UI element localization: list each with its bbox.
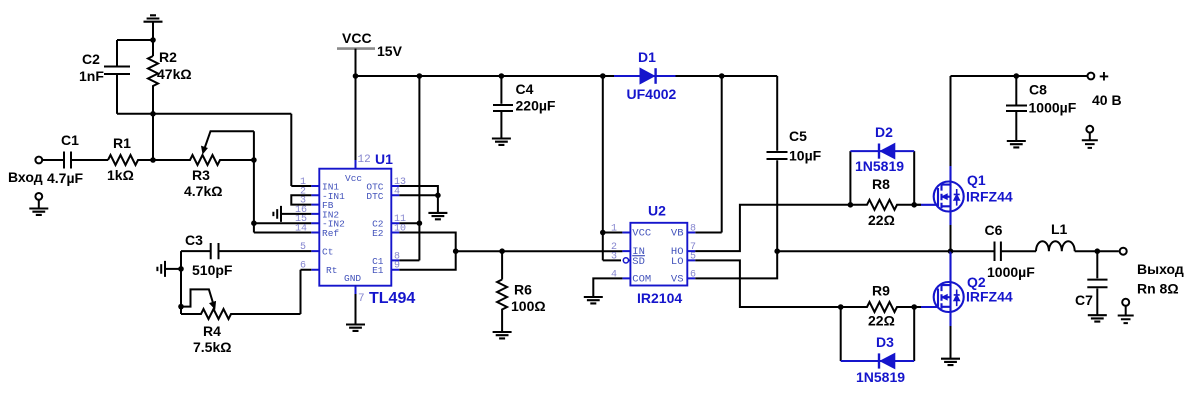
capacitor C1 <box>42 159 64 161</box>
node: PWM output <box>453 248 459 254</box>
wire: 40V rail right <box>951 75 1088 77</box>
svg-text:C7: C7 <box>1075 292 1093 308</box>
capacitor C5 <box>776 76 778 151</box>
svg-text:D1: D1 <box>638 49 656 65</box>
svg-text:7: 7 <box>358 293 365 305</box>
svg-text:5: 5 <box>690 251 696 262</box>
wire: to U2 pin 1 <box>603 232 623 234</box>
capacitor C6 <box>951 250 994 252</box>
node: U2 VCC tap <box>600 230 606 236</box>
wire: HO to R8 <box>695 205 850 251</box>
svg-text:100Ω: 100Ω <box>511 298 546 314</box>
svg-text:1N5819: 1N5819 <box>856 369 905 385</box>
supply ground terminal <box>1086 126 1093 133</box>
op-amp U1 TL494 body <box>319 169 391 286</box>
svg-text:+: + <box>1099 67 1109 86</box>
svg-text:7.5kΩ: 7.5kΩ <box>193 339 231 355</box>
svg-text:40 В: 40 В <box>1092 92 1122 108</box>
node: R8 left <box>848 202 854 208</box>
svg-text:1: 1 <box>611 224 617 235</box>
svg-text:Rt: Rt <box>326 265 337 276</box>
node: R9 left <box>838 304 844 310</box>
ground (output terminal) <box>1118 316 1134 324</box>
ground (top-left, inverted) <box>152 22 154 40</box>
ground (C4) <box>492 139 511 145</box>
wire: main VCC rail <box>356 75 778 77</box>
U2 pin stubs left <box>622 233 630 279</box>
svg-text:R1: R1 <box>113 135 131 151</box>
svg-text:Rn 8Ω: Rn 8Ω <box>1137 281 1179 297</box>
U1 pin 12 stub <box>355 160 357 169</box>
svg-text:DTC: DTC <box>366 191 383 202</box>
svg-text:Vcc: Vcc <box>345 173 362 184</box>
svg-text:C6: C6 <box>985 222 1003 238</box>
wire: VCC down to rail and U1 pin 12 <box>355 49 357 169</box>
potentiometer R4 <box>181 270 311 319</box>
svg-text:R4: R4 <box>203 323 221 339</box>
transistor Q1 IRFZ44 <box>914 76 964 251</box>
svg-text:LO: LO <box>671 256 684 268</box>
ground (U1 pin 16 IN2) <box>281 213 311 215</box>
node: R1/R3/feedback junction <box>150 157 156 163</box>
potentiometer R3 <box>153 155 254 165</box>
ground (input) <box>29 209 48 215</box>
svg-text:C1: C1 <box>61 132 79 148</box>
svg-text:15V: 15V <box>377 43 403 59</box>
resistor R9 <box>841 302 921 312</box>
ground (C3 left, sideways) <box>165 268 181 270</box>
svg-text:C3: C3 <box>185 232 203 248</box>
wire: VS to switch node <box>695 251 777 278</box>
svg-text:R3: R3 <box>192 167 210 183</box>
U1 pin 7 GND stub <box>355 286 357 325</box>
svg-text:VCC: VCC <box>342 30 372 46</box>
svg-text:6: 6 <box>690 269 696 280</box>
wire to pin 15 <box>254 222 311 224</box>
capacitor C3 <box>181 250 211 252</box>
output terminal <box>1120 248 1127 255</box>
wire: jumper pins 2-3 (FB to -IN1) <box>291 195 311 204</box>
wire: rail down to C2/C1 pins of U1 <box>399 76 419 260</box>
svg-text:D2: D2 <box>875 124 893 140</box>
svg-text:4: 4 <box>394 186 400 197</box>
svg-text:220µF: 220µF <box>516 98 556 114</box>
inductor L1 <box>1036 241 1075 251</box>
svg-text:8: 8 <box>690 224 696 235</box>
wire: VB vertical <box>695 76 721 233</box>
capacitor C4 <box>500 76 502 104</box>
transistor Q2 IRFZ44 <box>914 251 964 359</box>
resistor R2 <box>148 40 158 114</box>
output ground terminal <box>1122 299 1129 306</box>
node: OTC/DTC junction <box>435 193 441 199</box>
ground (C8) <box>1007 141 1026 147</box>
svg-text:E1: E1 <box>372 265 384 276</box>
U1 right pin stubs <box>391 186 399 270</box>
svg-text:UF4002: UF4002 <box>627 86 677 102</box>
wire: L1 to output <box>1075 250 1119 252</box>
resistor R8 <box>850 200 921 210</box>
svg-text:TL494: TL494 <box>369 290 415 307</box>
svg-text:U2: U2 <box>648 203 666 219</box>
svg-text:Ct: Ct <box>322 247 333 258</box>
svg-text:R6: R6 <box>514 282 532 298</box>
wire: E2/E1 output junction <box>399 233 455 270</box>
svg-text:C8: C8 <box>1029 82 1047 98</box>
svg-text:E2: E2 <box>372 228 384 239</box>
resistor R1 <box>108 155 153 165</box>
svg-text:9: 9 <box>394 261 400 272</box>
diode D3 1N5819 <box>841 307 915 361</box>
svg-text:C5: C5 <box>789 128 807 144</box>
svg-text:VS: VS <box>671 273 684 285</box>
wire: down to U2 VCC and SD <box>603 76 621 260</box>
node: C8 rail tap <box>1014 73 1020 79</box>
node: switch node / C6 <box>948 248 954 254</box>
wire: COM to ground <box>593 278 622 297</box>
capacitor C2 <box>116 40 118 66</box>
svg-text:IRFZ44: IRFZ44 <box>966 289 1013 305</box>
wire: LO to R9 <box>695 260 840 307</box>
node: VS / C5 junction <box>774 248 780 254</box>
node: rail/pin11 branch <box>417 73 423 79</box>
capacitor C8 <box>1015 76 1017 105</box>
input ground terminal <box>35 193 42 200</box>
svg-text:Ref: Ref <box>322 228 339 239</box>
svg-text:U1: U1 <box>375 151 393 167</box>
node: rail / U2 VCC branch <box>600 73 606 79</box>
svg-text:1nF: 1nF <box>79 68 104 84</box>
wire: switch node horizontal <box>777 250 950 252</box>
node: R9 right / gate <box>911 304 917 310</box>
node: rail / VB branch <box>719 73 725 79</box>
node: -IN2 tap <box>251 220 257 226</box>
wire: C3 left vertical <box>180 251 182 314</box>
ground (OTC/DTC) <box>428 213 447 219</box>
svg-text:Выход: Выход <box>1137 261 1184 277</box>
svg-text:12: 12 <box>358 154 371 166</box>
node: R3 right terminal <box>251 157 257 163</box>
op-amp U2 IR2104 body <box>630 223 687 286</box>
wire: PWM output to U2 IN <box>456 250 623 252</box>
input terminal Вход <box>35 157 42 164</box>
svg-text:C2: C2 <box>82 51 100 67</box>
svg-text:L1: L1 <box>1051 221 1068 237</box>
node: C4 rail tap <box>499 73 505 79</box>
wire to pin 14 <box>254 232 311 234</box>
svg-text:47kΩ: 47kΩ <box>157 66 192 82</box>
ground (R6) <box>493 332 512 338</box>
svg-text:D3: D3 <box>876 334 894 350</box>
svg-text:1kΩ: 1kΩ <box>107 167 134 183</box>
U2 pin stubs right <box>687 233 695 279</box>
wire: OTC/DTC to ground <box>399 186 438 213</box>
svg-text:4.7µF: 4.7µF <box>47 170 84 186</box>
svg-text:Вход: Вход <box>8 169 43 185</box>
svg-text:1N5819: 1N5819 <box>855 158 904 174</box>
R3 wiper <box>204 131 254 149</box>
diode D2 1N5819 <box>850 151 914 205</box>
svg-text:4.7kΩ: 4.7kΩ <box>184 183 222 199</box>
node: R8 right / gate <box>911 202 917 208</box>
U2 pin 3 SD bubble <box>623 258 628 263</box>
supply + terminal <box>1088 73 1095 80</box>
svg-text:C4: C4 <box>516 81 534 97</box>
svg-text:VB: VB <box>671 228 684 240</box>
svg-text:SD: SD <box>632 256 645 268</box>
svg-text:R8: R8 <box>872 176 890 192</box>
svg-text:22Ω: 22Ω <box>868 212 895 228</box>
ground (U1 pin 7) <box>346 325 365 331</box>
wire: R3 terminal down to -IN2/Ref <box>253 131 255 232</box>
svg-text:1000µF: 1000µF <box>987 264 1035 280</box>
wire: feedback row to IN1 <box>117 114 311 186</box>
node: R2/C2 top <box>150 37 156 43</box>
node: feedback row <box>150 111 156 117</box>
svg-text:IR2104: IR2104 <box>637 290 682 306</box>
node: R4 wiper tap <box>178 304 184 310</box>
wire: feedback vertical <box>152 114 154 160</box>
node: output / C7 <box>1095 248 1101 254</box>
ground (C7) <box>1088 315 1107 321</box>
svg-text:1000µF: 1000µF <box>1029 100 1077 116</box>
node: pin 11 tap <box>417 220 423 226</box>
svg-text:10µF: 10µF <box>789 148 822 164</box>
ground (Q2 source) <box>941 359 960 365</box>
capacitor C7 <box>1096 251 1098 278</box>
ground (supply) <box>1082 140 1098 148</box>
R4 wiper <box>181 289 214 306</box>
svg-text:COM: COM <box>632 273 651 285</box>
svg-text:14: 14 <box>295 224 307 235</box>
wire pin 11 <box>399 222 419 224</box>
svg-text:3: 3 <box>611 251 617 262</box>
node: R6 top <box>499 248 505 254</box>
resistor R6 <box>497 251 507 332</box>
svg-text:IRFZ44: IRFZ44 <box>966 189 1013 205</box>
node: VCC rail tap <box>353 73 359 79</box>
svg-text:Q1: Q1 <box>967 172 986 188</box>
diode D1 UF4002 <box>614 75 676 77</box>
svg-text:VCC: VCC <box>632 228 651 240</box>
svg-text:R9: R9 <box>872 283 890 299</box>
ground (U2 COM) <box>584 297 603 303</box>
svg-text:510pF: 510pF <box>192 262 233 278</box>
node: C3/ground junction <box>178 266 184 272</box>
svg-text:GND: GND <box>344 273 361 284</box>
U1 left pin stubs <box>311 186 319 270</box>
svg-text:22Ω: 22Ω <box>868 313 895 329</box>
svg-text:R2: R2 <box>159 49 177 65</box>
